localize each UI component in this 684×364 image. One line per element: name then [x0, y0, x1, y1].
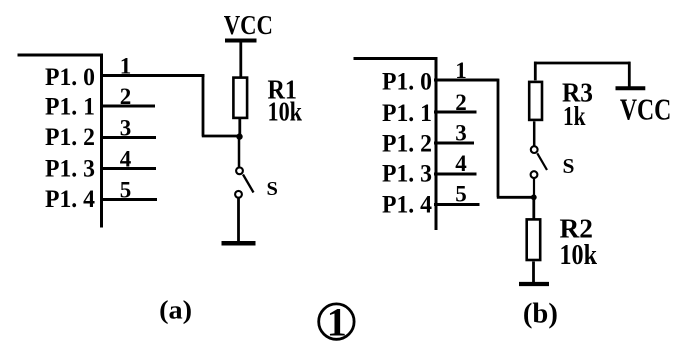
- switch S lever (a): [243, 175, 254, 193]
- svg-text:2: 2: [455, 90, 467, 115]
- svg-text:P1. 3: P1. 3: [382, 161, 432, 188]
- svg-text:(b): (b): [523, 297, 558, 329]
- svg-text:3: 3: [120, 116, 132, 141]
- svg-text:P1. 2: P1. 2: [382, 131, 432, 158]
- switch S bottom contact (a): [235, 191, 242, 198]
- pin 2 wire (b): [434, 111, 477, 114]
- pin 4 wire (b): [434, 173, 477, 176]
- VCC rail bar (b): [616, 86, 646, 90]
- switch S lever (b): [537, 153, 547, 170]
- wire R3 top lead (b): [534, 62, 537, 81]
- pin 5 wire (b): [434, 203, 480, 206]
- svg-text:4: 4: [120, 147, 132, 172]
- svg-text:10k: 10k: [560, 239, 598, 271]
- wire P1.0 down-run (a): [202, 74, 240, 136]
- figure number circle 1: [319, 304, 354, 339]
- wire R3 bottom to switch (b): [533, 121, 536, 146]
- MCU port box edge (b): [354, 57, 438, 230]
- wire VCC to R1 top (a): [239, 41, 242, 78]
- svg-text:1: 1: [327, 300, 347, 345]
- svg-text:2: 2: [120, 84, 132, 109]
- wire node to switch (a): [238, 138, 241, 167]
- svg-text:P1. 0: P1. 0: [45, 64, 95, 91]
- svg-text:3: 3: [455, 121, 467, 146]
- resistor R3 body: [529, 82, 542, 120]
- svg-text:4: 4: [455, 151, 467, 176]
- svg-text:VCC: VCC: [620, 93, 672, 127]
- svg-text:P1. 3: P1. 3: [45, 156, 95, 183]
- svg-text:S: S: [563, 154, 575, 178]
- resistor R1 body: [233, 78, 247, 118]
- pin 4 wire (a): [100, 167, 156, 170]
- wire P1.0 down-run (b): [497, 79, 534, 198]
- svg-text:1: 1: [455, 58, 467, 83]
- MCU port box edge (a): [18, 54, 104, 228]
- switch S top contact (a): [236, 167, 243, 174]
- pin 1 wire (a): [100, 74, 205, 77]
- svg-text:S: S: [267, 178, 278, 200]
- svg-text:(a): (a): [159, 295, 192, 324]
- pin 3 wire (b): [434, 142, 474, 145]
- pin 5 wire (a): [100, 198, 157, 201]
- svg-text:10k: 10k: [268, 95, 303, 126]
- wire top rail to VCC (b): [534, 62, 630, 65]
- wire R2 bottom to ground (b): [532, 262, 535, 284]
- switch S top contact (b): [531, 146, 538, 153]
- pin 1 wire (b): [434, 79, 499, 82]
- ground bar (b): [519, 282, 549, 286]
- wire node to R2 (b): [532, 197, 535, 219]
- svg-text:P1. 1: P1. 1: [45, 94, 95, 121]
- svg-text:5: 5: [120, 178, 132, 203]
- svg-text:1k: 1k: [563, 100, 586, 131]
- svg-text:1: 1: [120, 54, 132, 79]
- wire switch to ground (a): [237, 198, 240, 242]
- pin 2 wire (a): [100, 105, 155, 108]
- svg-text:P1. 0: P1. 0: [382, 69, 432, 96]
- switch S bottom contact (b): [531, 171, 538, 178]
- resistor R2 body: [527, 219, 541, 260]
- VCC rail bar (a): [225, 39, 257, 43]
- junction node dot (b): [531, 194, 537, 200]
- svg-text:P1. 2: P1. 2: [45, 124, 95, 151]
- svg-text:P1. 1: P1. 1: [382, 100, 432, 127]
- pin 3 wire (a): [100, 136, 156, 139]
- svg-text:P1. 4: P1. 4: [45, 186, 95, 213]
- svg-text:VCC: VCC: [224, 9, 273, 40]
- wire switch to node (b): [533, 178, 535, 197]
- ground bar (a): [222, 241, 256, 246]
- svg-text:5: 5: [455, 182, 467, 207]
- svg-text:P1. 4: P1. 4: [382, 192, 432, 219]
- wire VCC drop (b): [628, 62, 631, 88]
- wire R1 bottom to node (a): [238, 118, 241, 135]
- junction node dot (a): [236, 133, 242, 139]
